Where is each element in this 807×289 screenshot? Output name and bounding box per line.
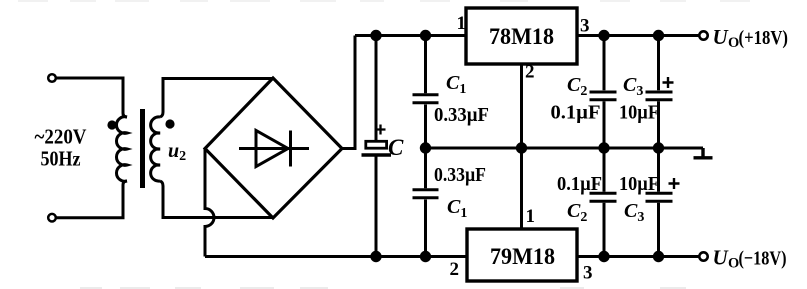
node top C1 bbox=[420, 30, 431, 41]
svg-text:10µF: 10µF bbox=[619, 173, 659, 195]
capacitor C plus plate bbox=[366, 141, 387, 148]
svg-text:C: C bbox=[388, 135, 404, 160]
bridge rectifier diamond bbox=[205, 78, 342, 218]
regulator U2 79M18 bbox=[467, 229, 577, 281]
capacitor C lead bottom bbox=[375, 155, 378, 257]
regulator U1 78M18 bbox=[466, 8, 577, 64]
top rail bbox=[355, 34, 466, 37]
capacitor C3 upper bbox=[646, 36, 673, 149]
top rail right bbox=[577, 34, 700, 37]
middle rail bbox=[426, 147, 704, 150]
polarity dot secondary bbox=[165, 119, 174, 128]
plus sign of C bbox=[376, 125, 386, 135]
bottom rail right bbox=[577, 255, 700, 258]
pin1 wire U2 bbox=[520, 148, 523, 229]
svg-text:C2: C2 bbox=[567, 200, 587, 225]
svg-text:0.1µF: 0.1µF bbox=[557, 173, 602, 195]
diode line bbox=[239, 147, 309, 150]
capacitor C1 upper bbox=[413, 36, 439, 149]
svg-text:0.33µF: 0.33µF bbox=[434, 104, 489, 126]
svg-text:C1: C1 bbox=[447, 196, 467, 221]
svg-text:C1: C1 bbox=[446, 72, 466, 97]
label Uo -18V bbox=[713, 246, 787, 272]
node top C bbox=[370, 30, 381, 41]
secondary winding u2 bbox=[151, 117, 160, 181]
svg-text:0.1µF: 0.1µF bbox=[551, 102, 601, 124]
ground bbox=[694, 148, 713, 158]
svg-text:C3: C3 bbox=[624, 200, 644, 225]
faint cropped text artifacts bottom edge bbox=[80, 287, 686, 289]
bottom rail bbox=[205, 255, 467, 258]
capacitor C minus plate bbox=[362, 153, 392, 156]
svg-text:3: 3 bbox=[583, 263, 593, 284]
capacitor C3 lower bbox=[646, 148, 673, 257]
svg-text:50Hz: 50Hz bbox=[41, 147, 81, 171]
node top C2 bbox=[598, 30, 609, 41]
node mid C1 bbox=[420, 142, 431, 153]
input terminal bottom bbox=[48, 214, 56, 222]
input terminal top bbox=[48, 74, 56, 82]
plus sign of C3 lower bbox=[669, 178, 680, 189]
wire bridge left to bottom rail with hop bbox=[205, 149, 214, 257]
svg-text:3: 3 bbox=[580, 16, 590, 37]
svg-text:78M18: 78M18 bbox=[489, 24, 554, 49]
node bottom C1 bbox=[420, 251, 431, 262]
polarity dot primary bbox=[107, 120, 116, 129]
svg-text:u2: u2 bbox=[168, 140, 186, 164]
node bottom C3 bbox=[653, 251, 664, 262]
capacitor C1 lower bbox=[413, 148, 439, 257]
core bbox=[140, 109, 145, 188]
svg-text:10µF: 10µF bbox=[619, 102, 659, 124]
label Uo +18V bbox=[713, 25, 789, 51]
svg-text:0.33µF: 0.33µF bbox=[434, 164, 486, 186]
svg-text:U: U bbox=[713, 25, 730, 49]
capacitor C2 lower bbox=[590, 148, 617, 257]
svg-text:(−18V): (−18V) bbox=[739, 248, 787, 270]
svg-text:1: 1 bbox=[457, 13, 467, 34]
primary winding L1 bbox=[116, 117, 127, 182]
wire secondary top bbox=[160, 79, 273, 118]
svg-text:2: 2 bbox=[450, 259, 460, 280]
diode cathode bar bbox=[289, 131, 292, 167]
node bottom C2 bbox=[598, 251, 609, 262]
node mid pin bbox=[516, 142, 527, 153]
wire secondary bottom bbox=[160, 181, 273, 218]
node mid C2 bbox=[598, 142, 609, 153]
plus sign of C3 upper bbox=[663, 77, 674, 88]
svg-text:2: 2 bbox=[525, 62, 535, 83]
svg-text:~220V: ~220V bbox=[35, 125, 87, 149]
node top C3 bbox=[653, 30, 664, 41]
svg-text:79M18: 79M18 bbox=[490, 244, 555, 269]
node mid C3 bbox=[653, 142, 664, 153]
capacitor C lead top bbox=[375, 36, 378, 141]
wire primary bottom bbox=[57, 181, 128, 218]
faint cropped text artifacts top edge bbox=[18, 0, 750, 2]
svg-text:U: U bbox=[713, 246, 730, 270]
output terminal -18V bbox=[699, 252, 707, 260]
diode triangle bbox=[256, 131, 288, 167]
svg-text:(+18V): (+18V) bbox=[739, 27, 789, 49]
svg-text:C2: C2 bbox=[567, 74, 587, 99]
pin2 wire U1 bbox=[520, 64, 523, 148]
node bottom C bbox=[370, 251, 381, 262]
capacitor C2 upper bbox=[590, 36, 617, 149]
wire bridge right to top rail bbox=[342, 36, 355, 149]
svg-text:1: 1 bbox=[526, 206, 536, 227]
svg-text:C3: C3 bbox=[623, 74, 643, 99]
output terminal +18V bbox=[699, 31, 707, 39]
wire primary top bbox=[57, 78, 128, 117]
